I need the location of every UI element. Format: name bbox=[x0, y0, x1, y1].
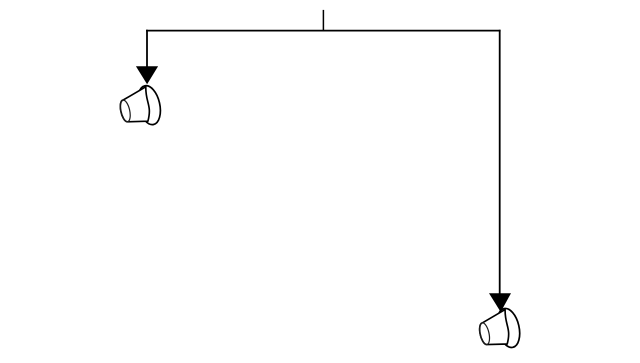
grommet right: tapered body bbox=[480, 310, 509, 345]
arrowhead right bbox=[489, 293, 511, 312]
wire: top center tick bbox=[322, 10, 324, 31]
part: grommet (left) bbox=[118, 83, 164, 126]
grommet left: small end face bbox=[118, 99, 132, 123]
wire: right vertical leader bbox=[499, 30, 501, 297]
wire: left vertical leader bbox=[146, 30, 148, 70]
grommet left: tapered body bbox=[120, 87, 149, 122]
grommet right: small end face bbox=[478, 322, 492, 346]
grommet right: flange outer rim bbox=[494, 306, 523, 349]
wire: horizontal leader line bbox=[146, 30, 501, 32]
grommet left: flange outer rim bbox=[134, 83, 163, 126]
arrowhead left bbox=[136, 66, 158, 84]
part: grommet (right) bbox=[478, 306, 524, 349]
